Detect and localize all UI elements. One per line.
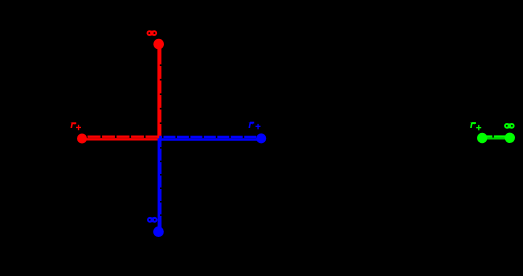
red trajectory solid (r+ to infinity) bbox=[82, 44, 159, 139]
red endpoint dot left (r+) bbox=[77, 134, 87, 144]
green label r+ bbox=[470, 117, 481, 131]
blue label r+ bbox=[248, 117, 260, 131]
green label infinity bbox=[504, 123, 515, 129]
blue endpoint dot bottom (infinity) bbox=[153, 226, 164, 237]
blue trajectory dashed bbox=[160, 137, 261, 232]
green endpoint dot right (infinity) bbox=[505, 133, 515, 143]
green trajectory dashed bbox=[483, 135, 509, 137]
red label r+ bbox=[70, 117, 81, 131]
red endpoint dot top (infinity) bbox=[153, 39, 164, 50]
blue endpoint dot right (r+) bbox=[256, 133, 266, 143]
svg-text:r: r bbox=[248, 117, 253, 131]
blue label infinity bbox=[147, 217, 158, 223]
green trajectory solid (r+ to infinity, horizon case) bbox=[483, 138, 509, 140]
green endpoint dot left (r+) bbox=[477, 133, 487, 143]
blue trajectory solid (r+ to infinity) bbox=[159, 140, 261, 232]
red trajectory dashed tail into dot bbox=[159, 44, 161, 54]
red label infinity bbox=[147, 30, 158, 36]
red trajectory dashed bbox=[82, 54, 160, 137]
